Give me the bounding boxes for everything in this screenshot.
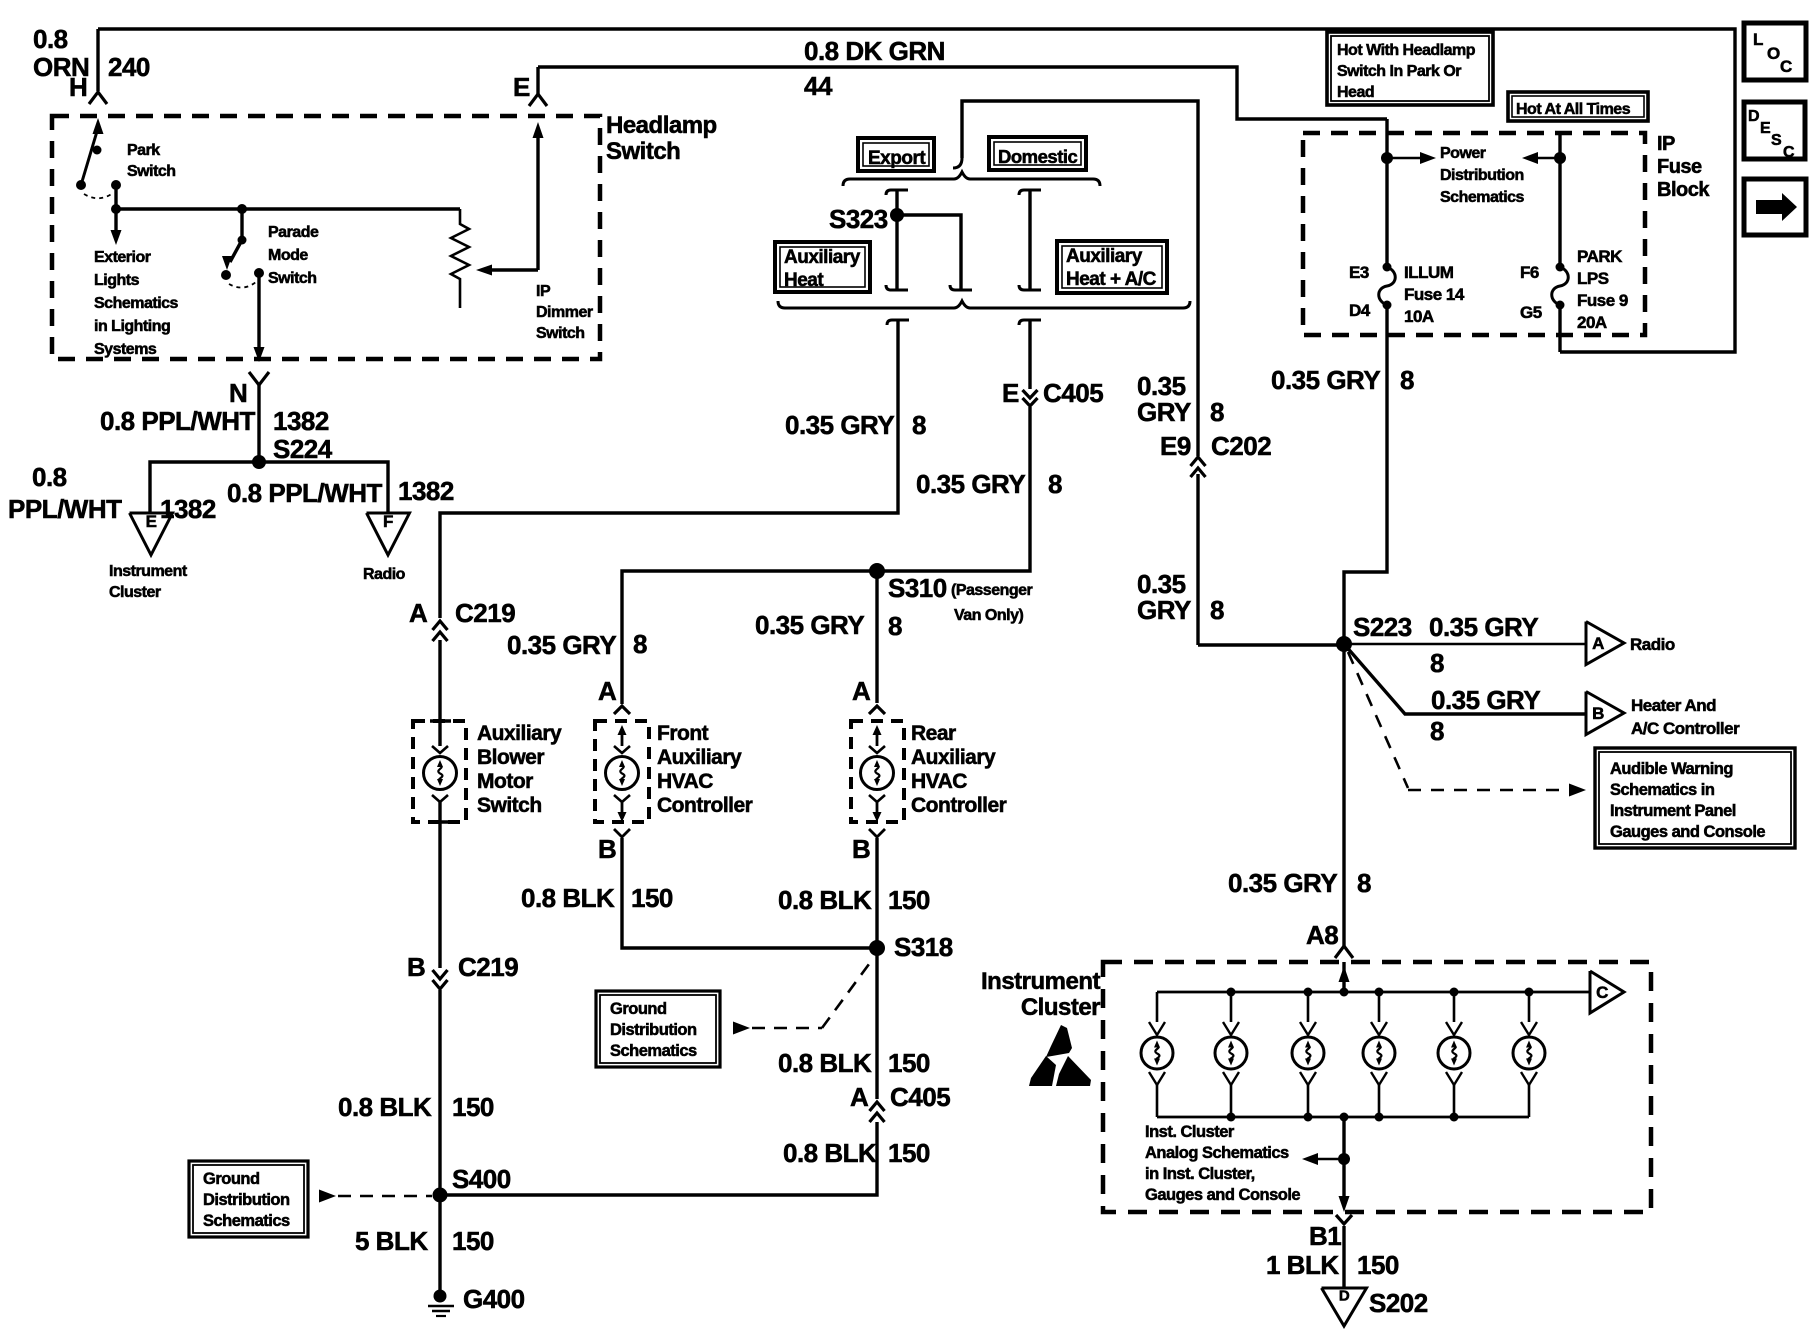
box Hot With Headlamp Switch In Park Or Head [1327, 32, 1493, 105]
wire front hvac B to S318 [622, 838, 877, 948]
wire fuse14 drop [1385, 119, 1388, 265]
triangle F radio [367, 513, 410, 555]
splice S310 [869, 563, 885, 579]
svg-text:GRY: GRY [1137, 397, 1191, 427]
svg-text:Heater And: Heater And [1631, 696, 1716, 715]
svg-text:Gauges and Console: Gauges and Console [1145, 1186, 1300, 1204]
svg-text:0.8: 0.8 [32, 462, 67, 492]
dashed pointer to S400 [319, 1190, 336, 1203]
wire A8 into cluster bus [1342, 962, 1345, 992]
svg-text:in Inst. Cluster,: in Inst. Cluster, [1145, 1165, 1255, 1183]
wire parade switch to N terminal [257, 273, 260, 348]
svg-text:C219: C219 [455, 598, 515, 628]
wire C405 to S310 bus [622, 407, 1030, 704]
cluster lamp 6 [1528, 992, 1531, 1022]
svg-text:Switch: Switch [127, 163, 176, 180]
svg-text:Schematics: Schematics [203, 1212, 290, 1230]
svg-text:Headlamp: Headlamp [606, 112, 717, 139]
svg-text:Auxiliary: Auxiliary [911, 746, 996, 769]
svg-text:1 BLK: 1 BLK [1266, 1250, 1339, 1280]
svg-text:Auxiliary: Auxiliary [784, 247, 861, 268]
svg-text:8: 8 [1210, 595, 1224, 625]
wire hot at all times to fuse 9 [1558, 133, 1561, 265]
cluster lamp 2 [1230, 992, 1233, 1022]
svg-text:0.8 PPL/WHT: 0.8 PPL/WHT [227, 478, 382, 508]
svg-text:8: 8 [1210, 397, 1224, 427]
svg-text:Van Only): Van Only) [954, 607, 1023, 624]
fuse 9 PARK LPS [1556, 263, 1565, 272]
svg-text:E: E [513, 72, 530, 102]
svg-text:Schematics: Schematics [610, 1042, 697, 1060]
wire S318 to C405 A [875, 948, 878, 1099]
svg-text:Heat + A/C: Heat + A/C [1066, 269, 1157, 290]
svg-text:C: C [1783, 144, 1795, 161]
alt line domestic [1019, 190, 1041, 195]
svg-text:B1: B1 [1309, 1221, 1341, 1251]
svg-text:8: 8 [633, 629, 647, 659]
svg-text:Inst. Cluster: Inst. Cluster [1145, 1123, 1235, 1141]
fuse 14 ILLUM [1383, 263, 1392, 272]
svg-text:Instrument: Instrument [981, 968, 1101, 995]
svg-text:0.8 BLK: 0.8 BLK [778, 1048, 872, 1078]
box forward arrow [1744, 179, 1806, 235]
park switch blade with arrow [81, 128, 98, 185]
splice S400 [433, 1188, 448, 1203]
box Ground Distribution Schematics left [189, 1161, 308, 1237]
svg-text:Export: Export [868, 148, 926, 169]
alt line export left [886, 190, 908, 195]
headlamp switch dashed box [52, 116, 600, 359]
svg-text:0.8 BLK: 0.8 BLK [521, 883, 615, 913]
svg-text:PARK: PARK [1577, 247, 1623, 266]
wire 0.8 ORN 240 from H terminal to top rail [96, 29, 99, 91]
node parade junction [237, 204, 247, 214]
svg-text:Fuse 14: Fuse 14 [1404, 285, 1465, 304]
svg-text:150: 150 [888, 885, 930, 915]
svg-text:B: B [1592, 704, 1604, 723]
wire C219 to aux blower switch [438, 640, 441, 746]
wire fuse14 to S223 [1344, 305, 1387, 644]
node fuse14 feed [1381, 152, 1393, 164]
svg-text:Audible Warning: Audible Warning [1610, 760, 1733, 778]
svg-text:E9: E9 [1160, 431, 1191, 461]
cluster bottom bus [1157, 1116, 1529, 1119]
wire 0.8 DK GRN 44 from headlamp switch E to fuse 14 [538, 67, 1387, 119]
dashed pointer to audible warning [1348, 652, 1408, 788]
svg-text:A/C Controller: A/C Controller [1631, 719, 1740, 738]
svg-text:Schematics: Schematics [94, 295, 179, 312]
wire S223 to instrument cluster A8 [1342, 644, 1345, 948]
svg-text:Motor: Motor [477, 770, 533, 793]
wire S400 to G400 [438, 1195, 441, 1296]
svg-text:B: B [852, 834, 870, 864]
wire aux blower to C219 B [438, 802, 441, 968]
svg-text:8: 8 [1430, 716, 1444, 746]
svg-text:1382: 1382 [273, 406, 329, 436]
svg-text:Switch: Switch [477, 794, 542, 817]
IP fuse block dashed box [1303, 133, 1645, 335]
svg-text:Cluster: Cluster [109, 584, 161, 601]
rear aux hvac dashed box [851, 721, 904, 822]
wire C405 to S400 [440, 1122, 877, 1195]
parade mode switch contact [221, 270, 231, 280]
box Hot At All Times [1508, 92, 1648, 121]
svg-text:150: 150 [1357, 1250, 1399, 1280]
svg-text:A: A [852, 676, 871, 706]
wire park switch to bus [114, 185, 117, 209]
svg-text:E: E [146, 512, 157, 531]
svg-text:0.35 GRY: 0.35 GRY [1431, 685, 1540, 715]
wire S310 down to rear hvac [875, 571, 878, 703]
svg-text:B: B [407, 952, 425, 982]
svg-text:Instrument Panel: Instrument Panel [1610, 802, 1736, 820]
svg-text:IP: IP [536, 283, 551, 300]
svg-text:Radio: Radio [1630, 635, 1675, 654]
svg-text:L: L [1753, 30, 1763, 49]
svg-text:Lights: Lights [94, 272, 140, 289]
aux blower motor switch dashed box [413, 721, 466, 822]
box Domestic [989, 137, 1086, 170]
cluster top bus [1157, 991, 1590, 994]
triangle D splice S202 [1322, 1288, 1367, 1326]
wire domestic loop to connector C202 [953, 158, 962, 168]
svg-text:Schematics in: Schematics in [1610, 781, 1715, 799]
svg-text:8: 8 [1400, 365, 1414, 395]
svg-text:Distribution: Distribution [203, 1191, 290, 1209]
svg-text:D: D [1339, 1287, 1350, 1304]
svg-text:0.8 PPL/WHT: 0.8 PPL/WHT [100, 406, 255, 436]
svg-text:Ground: Ground [203, 1170, 260, 1188]
box Audible Warning Schematics [1595, 748, 1795, 848]
svg-text:Power: Power [1440, 145, 1486, 162]
svg-text:C: C [1780, 57, 1792, 76]
svg-text:HVAC: HVAC [911, 770, 967, 793]
svg-text:8: 8 [1048, 469, 1062, 499]
svg-text:Fuse: Fuse [1657, 156, 1702, 178]
wire C202 to S223 [1191, 457, 1206, 466]
svg-text:0.35 GRY: 0.35 GRY [1228, 868, 1337, 898]
wire S323 elbow [897, 215, 961, 290]
parade switch throw arc dashed [229, 282, 256, 288]
svg-text:D: D [1748, 108, 1759, 125]
resistor IP dimmer [451, 209, 469, 308]
brace export-domestic [843, 172, 1100, 186]
ground G400 [434, 1290, 447, 1303]
svg-text:S224: S224 [273, 434, 333, 464]
brace lower aux heat [778, 301, 1190, 308]
triangle E instrument cluster [130, 513, 173, 555]
svg-text:0.35 GRY: 0.35 GRY [755, 610, 864, 640]
svg-text:10A: 10A [1404, 307, 1434, 326]
svg-text:0.8 BLK: 0.8 BLK [778, 885, 872, 915]
svg-text:E: E [1002, 378, 1019, 408]
wire dimmer wiper from E line [536, 137, 539, 270]
svg-text:240: 240 [108, 52, 150, 82]
svg-text:Head: Head [1337, 84, 1374, 101]
svg-text:Block: Block [1657, 179, 1710, 201]
svg-text:150: 150 [452, 1092, 494, 1122]
wire fuse9 to right rail [1558, 305, 1561, 352]
splice S323 [890, 208, 904, 222]
svg-text:H: H [69, 72, 87, 102]
cluster lamp 4 [1378, 992, 1381, 1022]
svg-text:G5: G5 [1520, 303, 1542, 322]
svg-text:8: 8 [888, 611, 902, 641]
svg-text:Hot At All Times: Hot At All Times [1516, 101, 1631, 118]
svg-text:S223: S223 [1353, 612, 1412, 642]
connector N chevron [249, 372, 269, 385]
instrument cluster dashed box [1103, 962, 1651, 1212]
alt line to C219 branch [887, 320, 909, 325]
svg-text:Ground: Ground [610, 1000, 667, 1018]
triangle C cluster [1590, 971, 1624, 1013]
wire top rail 0.8 DK GRN to IP fuse block right side [98, 29, 1735, 352]
svg-text:0.35 GRY: 0.35 GRY [1271, 365, 1380, 395]
triangle B heater [1586, 692, 1624, 735]
alt line to C405 branch [1019, 320, 1041, 325]
svg-text:150: 150 [888, 1138, 930, 1168]
parade mode switch blade with arrow [240, 209, 243, 240]
splice S224 [252, 455, 266, 469]
wire S223 to heater triangle B [1344, 644, 1586, 714]
svg-text:Systems: Systems [94, 341, 157, 358]
box LOC [1744, 23, 1806, 80]
svg-text:HVAC: HVAC [657, 770, 713, 793]
svg-text:Distribution: Distribution [1440, 167, 1524, 184]
wire S224 to instrument cluster triangle E [150, 462, 259, 513]
svg-text:C405: C405 [890, 1082, 950, 1112]
svg-text:8: 8 [1357, 868, 1371, 898]
svg-text:Park: Park [127, 142, 160, 159]
node junction exterior lights [111, 204, 121, 214]
svg-text:Switch: Switch [268, 270, 317, 287]
svg-text:(Passenger: (Passenger [951, 582, 1033, 599]
connector B1 [1336, 1215, 1352, 1224]
svg-text:Instrument: Instrument [109, 563, 188, 580]
svg-text:E3: E3 [1349, 263, 1369, 282]
svg-text:ILLUM: ILLUM [1404, 263, 1454, 282]
wire C219 to S400 [438, 990, 441, 1195]
wire B1 to S202 [1342, 1226, 1345, 1288]
svg-text:Exterior: Exterior [94, 249, 151, 266]
svg-text:Rear: Rear [911, 722, 956, 745]
svg-text:0.8: 0.8 [33, 24, 68, 54]
svg-text:0.35 GRY: 0.35 GRY [785, 410, 894, 440]
svg-text:GRY: GRY [1137, 595, 1191, 625]
svg-text:Blower: Blower [477, 746, 544, 769]
svg-text:0.35 GRY: 0.35 GRY [916, 469, 1025, 499]
svg-text:IP: IP [1657, 133, 1675, 155]
node park lps feed [1554, 152, 1566, 164]
svg-text:20A: 20A [1577, 313, 1607, 332]
svg-text:O: O [1767, 44, 1780, 63]
wire E drop into headlamp switch [536, 67, 539, 94]
svg-text:0.8 DK GRN: 0.8 DK GRN [804, 36, 945, 66]
svg-text:Parade: Parade [268, 224, 319, 241]
svg-text:A: A [1592, 634, 1604, 653]
svg-text:S202: S202 [1369, 1288, 1428, 1318]
svg-text:Auxiliary: Auxiliary [657, 746, 742, 769]
svg-text:C202: C202 [1211, 431, 1271, 461]
box Export [858, 138, 934, 171]
svg-text:0.8 BLK: 0.8 BLK [783, 1138, 877, 1168]
svg-text:S310: S310 [888, 573, 947, 603]
svg-text:Auxiliary: Auxiliary [1066, 246, 1143, 267]
svg-text:D4: D4 [1349, 301, 1371, 320]
connector H chevron [89, 92, 107, 104]
svg-text:Domestic: Domestic [998, 146, 1077, 167]
splice S223 [1336, 636, 1352, 652]
svg-text:Fuse 9: Fuse 9 [1577, 291, 1628, 310]
box Auxiliary Heat + A/C [1057, 241, 1167, 293]
wire N to splice S224 [257, 385, 260, 462]
lamp aux blower [430, 719, 451, 723]
svg-text:8: 8 [912, 410, 926, 440]
svg-text:0.35 GRY: 0.35 GRY [507, 630, 616, 660]
svg-text:Auxiliary: Auxiliary [477, 722, 562, 745]
svg-text:Switch: Switch [536, 325, 585, 342]
svg-text:Dimmer: Dimmer [536, 304, 593, 321]
svg-text:1382: 1382 [398, 476, 454, 506]
svg-text:E: E [1760, 120, 1771, 137]
wire cluster bottom to B1 [1342, 1117, 1345, 1198]
svg-text:Analog Schematics: Analog Schematics [1145, 1144, 1289, 1162]
cluster lamp 5 [1453, 992, 1456, 1022]
svg-text:F: F [383, 512, 393, 531]
connector E chevron [529, 94, 547, 106]
cluster bus junction dots [1227, 988, 1236, 997]
svg-text:Controller: Controller [657, 794, 753, 817]
svg-text:LPS: LPS [1577, 269, 1609, 288]
lamp front hvac [618, 725, 627, 735]
svg-text:Front: Front [657, 722, 709, 745]
svg-text:A: A [850, 1082, 869, 1112]
svg-text:Heat: Heat [784, 270, 824, 291]
lamp rear hvac [873, 725, 882, 735]
svg-text:Mode: Mode [268, 247, 308, 264]
svg-text:Switch: Switch [606, 138, 680, 165]
svg-text:A8: A8 [1306, 920, 1338, 950]
box Ground Distribution Schematics mid [596, 991, 720, 1067]
splice S318 [869, 940, 885, 956]
dashed pointer to S318 [733, 1022, 750, 1035]
svg-text:Cluster: Cluster [1021, 994, 1100, 1021]
svg-text:Radio: Radio [363, 566, 406, 583]
svg-text:Switch In Park Or: Switch In Park Or [1337, 63, 1461, 80]
svg-text:in Lighting: in Lighting [94, 318, 170, 335]
triangle A radio [1586, 622, 1624, 665]
svg-text:Distribution: Distribution [610, 1021, 697, 1039]
svg-text:Controller: Controller [911, 794, 1007, 817]
svg-text:A: A [409, 598, 428, 628]
wire switch bus to dimmer resistor [116, 207, 460, 210]
svg-text:N: N [229, 378, 247, 408]
wire arrow to Exterior Lights Schematics [114, 209, 117, 230]
svg-text:S: S [1771, 132, 1782, 149]
svg-text:Gauges and Console: Gauges and Console [1610, 823, 1765, 841]
svg-text:150: 150 [452, 1226, 494, 1256]
wire rear hvac B to S318 [875, 838, 878, 948]
arrow to power distribution left [1538, 157, 1560, 160]
arrow to power distribution [1387, 157, 1420, 160]
svg-text:S318: S318 [894, 932, 953, 962]
ESD symbol [1046, 1025, 1072, 1057]
wire S224 to radio triangle F [259, 462, 388, 513]
front aux hvac dashed box [595, 721, 649, 822]
svg-text:0.8 BLK: 0.8 BLK [338, 1092, 432, 1122]
svg-text:5 BLK: 5 BLK [355, 1226, 428, 1256]
svg-text:S400: S400 [452, 1164, 511, 1194]
cluster lamp 3 [1307, 992, 1310, 1022]
svg-text:8: 8 [1430, 648, 1444, 678]
park switch fixed contact [111, 180, 121, 190]
svg-text:A: A [598, 676, 617, 706]
svg-text:0.35 GRY: 0.35 GRY [1429, 612, 1538, 642]
svg-text:Hot With Headlamp: Hot With Headlamp [1337, 42, 1476, 59]
svg-text:44: 44 [804, 71, 833, 101]
wire S223 to radio triangle A [1344, 643, 1586, 646]
svg-text:F6: F6 [1520, 263, 1539, 282]
svg-text:G400: G400 [463, 1284, 525, 1314]
park switch throw arc dashed [84, 193, 113, 198]
box Auxiliary Heat [775, 242, 870, 292]
svg-text:PPL/WHT: PPL/WHT [8, 494, 122, 524]
svg-text:B: B [598, 834, 616, 864]
svg-text:150: 150 [888, 1048, 930, 1078]
svg-text:150: 150 [631, 883, 673, 913]
cluster lamp 1 [1156, 992, 1159, 1022]
svg-text:C: C [1596, 983, 1608, 1002]
svg-text:C219: C219 [458, 952, 518, 982]
svg-text:Schematics: Schematics [1440, 189, 1525, 206]
svg-text:C405: C405 [1043, 378, 1103, 408]
box DESC [1744, 102, 1805, 159]
svg-text:S323: S323 [829, 204, 888, 234]
